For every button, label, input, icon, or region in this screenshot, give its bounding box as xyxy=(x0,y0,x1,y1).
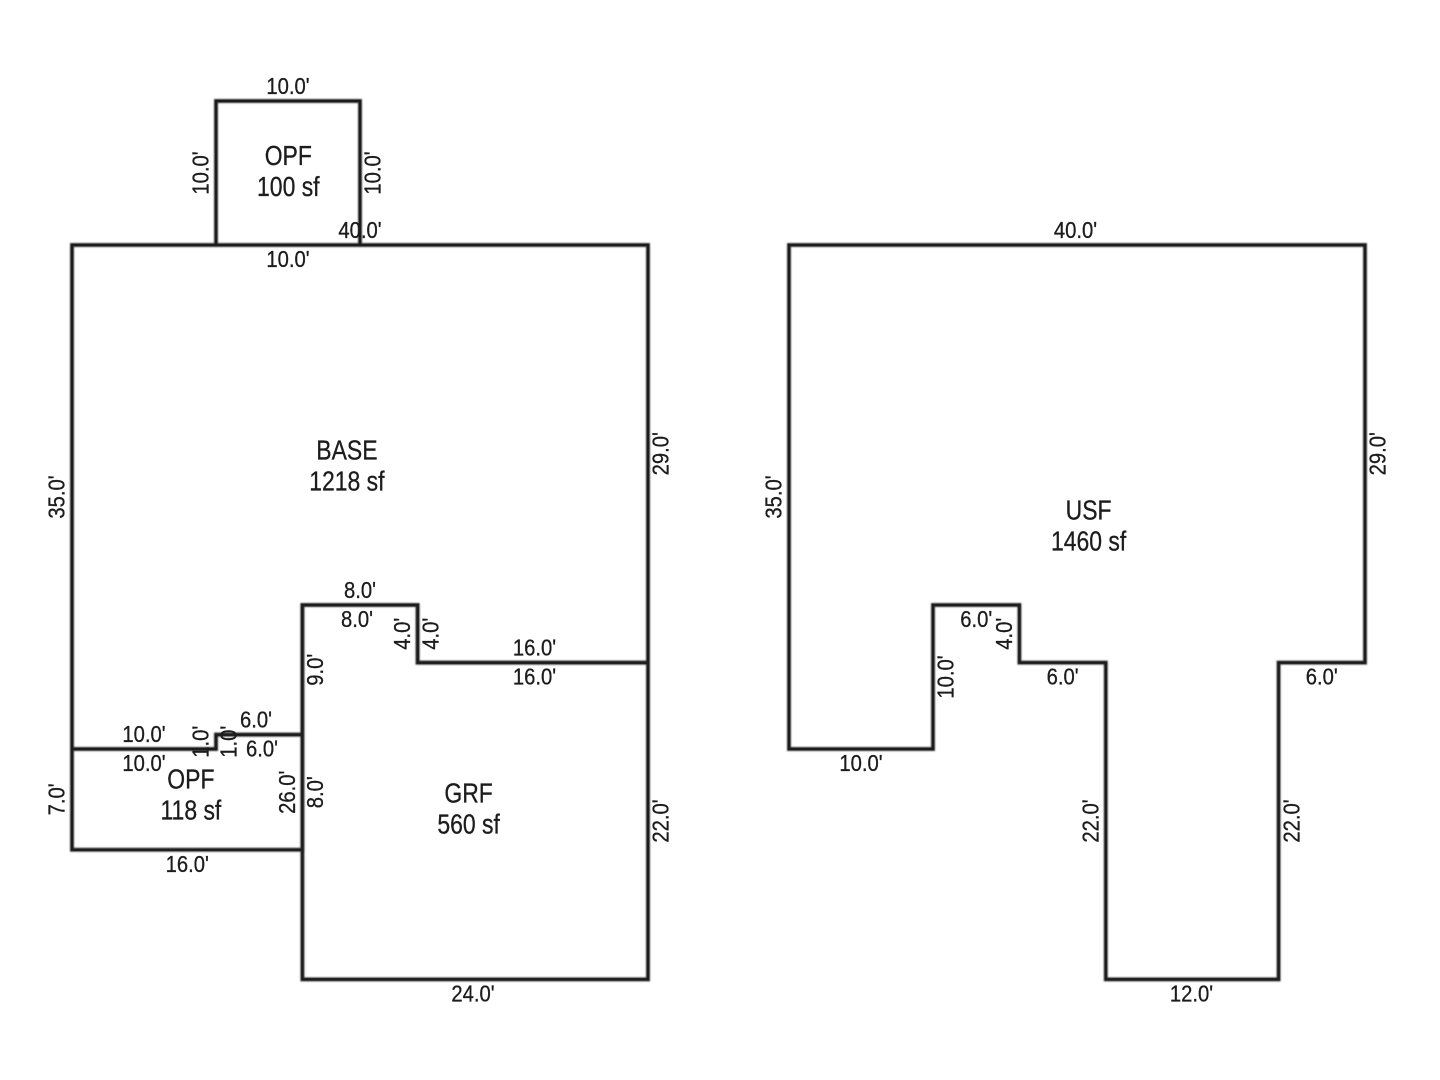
svg-text:10.0': 10.0' xyxy=(839,750,882,777)
wall outline: OPF 100 sf box xyxy=(216,101,360,245)
svg-text:6.0': 6.0' xyxy=(240,706,272,733)
svg-text:1460 sf: 1460 sf xyxy=(1051,527,1127,558)
svg-text:10.0': 10.0' xyxy=(932,655,959,698)
svg-text:9.0': 9.0' xyxy=(302,654,329,686)
wall halo (soft upscale look) xyxy=(72,101,1365,979)
svg-text:BASE: BASE xyxy=(316,435,377,466)
svg-text:1.0': 1.0' xyxy=(187,726,214,758)
svg-text:100 sf: 100 sf xyxy=(257,172,320,203)
svg-text:16.0': 16.0' xyxy=(513,634,556,661)
wall outline: USF polygon xyxy=(789,245,1365,979)
svg-text:12.0': 12.0' xyxy=(1170,980,1213,1007)
wall outline: OPF 118 sf polygon xyxy=(72,735,302,850)
svg-text:22.0': 22.0' xyxy=(647,799,674,842)
svg-text:GRF: GRF xyxy=(444,778,492,809)
svg-text:10.0': 10.0' xyxy=(122,721,165,748)
svg-text:OPF: OPF xyxy=(265,141,312,172)
svg-text:7.0': 7.0' xyxy=(43,783,70,815)
wall outline: BASE polygon xyxy=(72,245,648,749)
svg-text:118 sf: 118 sf xyxy=(160,795,222,826)
svg-text:4.0': 4.0' xyxy=(389,618,416,650)
svg-text:8.0': 8.0' xyxy=(302,776,329,808)
svg-text:10.0': 10.0' xyxy=(266,73,309,100)
svg-text:8.0': 8.0' xyxy=(344,577,376,604)
svg-text:35.0': 35.0' xyxy=(43,475,70,518)
svg-text:6.0': 6.0' xyxy=(960,606,992,633)
svg-text:8.0': 8.0' xyxy=(341,606,373,633)
wall outline: GRF polygon xyxy=(302,605,648,979)
svg-text:29.0': 29.0' xyxy=(647,432,674,475)
svg-text:16.0': 16.0' xyxy=(166,851,209,878)
svg-text:40.0': 40.0' xyxy=(338,217,381,244)
svg-text:22.0': 22.0' xyxy=(1077,799,1104,842)
svg-text:40.0': 40.0' xyxy=(1054,217,1097,244)
svg-text:560 sf: 560 sf xyxy=(437,809,500,840)
svg-text:4.0': 4.0' xyxy=(991,618,1018,650)
svg-text:1218 sf: 1218 sf xyxy=(309,466,385,497)
svg-text:10.0': 10.0' xyxy=(266,246,309,273)
svg-text:29.0': 29.0' xyxy=(1364,432,1391,475)
svg-text:10.0': 10.0' xyxy=(187,151,214,194)
svg-text:OPF: OPF xyxy=(167,764,214,795)
svg-text:22.0': 22.0' xyxy=(1278,799,1305,842)
svg-text:6.0': 6.0' xyxy=(1306,663,1338,690)
svg-text:10.0': 10.0' xyxy=(359,151,386,194)
svg-text:4.0': 4.0' xyxy=(417,618,444,650)
svg-text:10.0': 10.0' xyxy=(122,750,165,777)
svg-text:USF: USF xyxy=(1066,496,1112,527)
svg-text:35.0': 35.0' xyxy=(760,475,787,518)
svg-text:16.0': 16.0' xyxy=(513,663,556,690)
svg-text:1.0': 1.0' xyxy=(215,726,242,758)
svg-text:24.0': 24.0' xyxy=(451,980,494,1007)
svg-text:6.0': 6.0' xyxy=(1047,663,1079,690)
svg-text:26.0': 26.0' xyxy=(274,771,301,814)
svg-text:6.0': 6.0' xyxy=(246,735,278,762)
